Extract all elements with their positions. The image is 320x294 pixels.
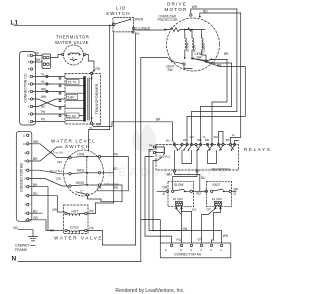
wire bundle corner 1 <box>212 60 227 103</box>
svg-text:1: 1 <box>220 248 222 252</box>
svg-text:BU: BU <box>41 105 46 109</box>
svg-text:3: 3 <box>28 105 30 109</box>
svg-text:9: 9 <box>28 60 30 64</box>
motor winding SLOW coil <box>185 36 187 51</box>
long vertical wire from L1 branch <box>109 26 111 130</box>
svg-text:WH: WH <box>41 88 47 92</box>
svg-text:PK: PK <box>41 110 46 114</box>
wire water valve PK top loop <box>87 203 96 214</box>
svg-text:DRIVE: DRIVE <box>167 2 187 7</box>
wire PK row7 <box>33 121 65 123</box>
svg-text:9: 9 <box>24 151 26 155</box>
label BU between relays <box>193 190 206 192</box>
svg-text:SWITCH: SWITCH <box>65 144 90 149</box>
svg-text:3I: 3I <box>163 192 166 196</box>
long vertical wire from lid switch <box>96 33 114 203</box>
svg-text:5: 5 <box>28 90 30 94</box>
svg-text:YL: YL <box>136 32 140 36</box>
svg-text:220: 220 <box>57 160 62 164</box>
svg-text:23.7V: 23.7V <box>68 81 78 85</box>
connector CC pin numbers <box>27 54 30 124</box>
svg-text:WH: WH <box>197 138 202 142</box>
svg-text:WATER LEVEL: WATER LEVEL <box>51 139 96 144</box>
transformer winding <box>83 78 86 121</box>
svg-text:PROTECTOR: PROTECTOR <box>158 18 179 22</box>
svg-text:GN: GN <box>190 135 194 139</box>
wire PK row6 <box>33 113 65 115</box>
svg-text:RD: RD <box>96 67 101 71</box>
thermistor element <box>71 60 78 62</box>
svg-text:BR: BR <box>205 138 209 142</box>
connector CC pins <box>30 54 32 122</box>
wire motor GY left with N return vertical <box>141 58 168 262</box>
connector AA body <box>160 243 231 258</box>
svg-text:3: 3 <box>200 248 202 252</box>
motor winding START coil <box>202 36 204 51</box>
svg-text:THERMISTOR: THERMISTOR <box>56 34 89 39</box>
svg-text:8: 8 <box>28 67 30 71</box>
connector BB body <box>16 131 32 221</box>
label 22.4V <box>67 113 80 118</box>
motor winding RUN coil <box>192 36 194 51</box>
svg-text:24 VDC: 24 VDC <box>173 197 184 201</box>
svg-text:6: 6 <box>28 82 30 86</box>
wire WH row5 crossover <box>33 99 65 107</box>
motor bottom rail junctions <box>184 57 186 59</box>
wire YL row2 <box>33 83 65 85</box>
svg-text:FRAME: FRAME <box>15 248 28 252</box>
svg-text:RUN: RUN <box>193 44 197 52</box>
wire bundle corner 4 <box>187 62 245 116</box>
svg-text:WH: WH <box>192 5 198 9</box>
wire YL row1 <box>33 76 65 78</box>
svg-text:CONNECTOR AA: CONNECTOR AA <box>174 253 202 257</box>
svg-text:SW: SW <box>197 55 202 59</box>
svg-text:OPEN: OPEN <box>134 18 144 22</box>
wire motor internal rails <box>185 52 206 60</box>
svg-text:2: 2 <box>210 248 212 252</box>
relay terminal labels <box>166 133 235 142</box>
svg-text:PK: PK <box>114 186 119 190</box>
wire lid switch output dashed <box>113 31 132 33</box>
svg-text:220: 220 <box>56 176 61 180</box>
svg-text:2: 2 <box>28 112 30 116</box>
svg-text:TRANSFORMER: TRANSFORMER <box>94 83 99 114</box>
wires left bundle to connector AA <box>149 150 182 244</box>
svg-text:OR: OR <box>52 208 57 212</box>
thermistor water valve dashed circle <box>64 45 84 65</box>
svg-text:WH: WH <box>214 135 219 139</box>
wires relay bottom down <box>175 172 206 191</box>
svg-text:SW: SW <box>168 68 173 72</box>
svg-text:7: 7 <box>24 168 26 172</box>
svg-text:5.8V: 5.8V <box>68 96 76 100</box>
wire WLS C down <box>87 196 101 202</box>
wire WH row3 <box>33 91 65 93</box>
svg-text:SWITCH: SWITCH <box>106 11 131 16</box>
svg-text:10: 10 <box>23 142 26 146</box>
svg-text:12: 12 <box>232 133 236 137</box>
transformer T1 dashed enclosure <box>65 74 101 125</box>
lid switch CLOSED contact <box>133 27 136 30</box>
svg-text:22.4V: 22.4V <box>67 114 77 118</box>
relay box top terminals <box>173 143 235 145</box>
motor overload protector element <box>166 28 184 32</box>
relay reversing loops <box>182 151 217 164</box>
overload protector secondary element <box>186 28 193 31</box>
svg-text:5: 5 <box>180 248 182 252</box>
svg-text:WH: WH <box>167 172 173 176</box>
svg-text:PK: PK <box>41 118 46 122</box>
svg-text:GY: GY <box>198 238 203 242</box>
svg-text:SLOW: SLOW <box>174 183 183 187</box>
svg-text:LID: LID <box>116 6 126 11</box>
svg-text:REVERSING: REVERSING <box>212 168 231 172</box>
wire bundle vertical RD <box>231 13 241 138</box>
terminal block 2x2 <box>42 54 51 69</box>
long vertical wire YL output down <box>135 33 137 245</box>
svg-text:BU: BU <box>201 176 206 180</box>
wire motor right exits <box>192 59 232 64</box>
svg-text:WATER VALVE: WATER VALVE <box>54 236 103 241</box>
svg-text:11: 11 <box>23 133 26 137</box>
relay box top wires <box>187 102 239 143</box>
svg-text:RD: RD <box>33 192 38 196</box>
svg-text:PK: PK <box>98 186 103 190</box>
svg-text:6: 6 <box>24 177 26 181</box>
svg-text:PK: PK <box>90 210 95 214</box>
wire N line <box>18 261 141 263</box>
relay K1 coil <box>153 146 155 148</box>
water level switch dashed circle <box>64 150 104 196</box>
svg-text:OR: OR <box>163 186 168 190</box>
relay FAST dashed enclosure <box>207 181 232 206</box>
svg-text:BR: BR <box>234 187 239 191</box>
svg-text:RD: RD <box>183 138 187 142</box>
svg-text:I2: I2 <box>234 192 237 196</box>
svg-text:BR: BR <box>224 52 229 56</box>
relay box dashed enclosure <box>156 145 239 171</box>
thermistor valve right terminal <box>83 53 85 55</box>
svg-text:LOW: LOW <box>77 153 84 157</box>
thermistor valve left terminal <box>62 53 64 55</box>
svg-text:BK: BK <box>226 138 230 142</box>
wire water valve PK bottom loop <box>87 231 103 246</box>
drive motor M1 dashed circle <box>167 18 220 71</box>
svg-text:BU: BU <box>166 139 170 143</box>
svg-text:1: 1 <box>28 120 30 124</box>
svg-text:6: 6 <box>165 248 167 252</box>
connector AA pins <box>170 244 222 246</box>
svg-text:PK: PK <box>149 143 153 147</box>
label 23.7V <box>67 80 80 85</box>
centrifugal switch upper contact <box>205 60 207 62</box>
transformer primary line <box>91 75 93 122</box>
svg-text:2: 2 <box>24 211 26 215</box>
wire L1 feed <box>14 24 114 26</box>
svg-text:FAST: FAST <box>213 183 221 187</box>
svg-text:YL: YL <box>89 126 93 130</box>
wire BK row <box>33 55 42 57</box>
connector BB pins <box>27 134 29 221</box>
svg-text:MOTOR: MOTOR <box>165 7 188 12</box>
svg-text:BU: BU <box>197 192 202 196</box>
svg-text:CONNECTOR CC: CONNECTOR CC <box>24 73 28 103</box>
svg-text:PU: PU <box>177 238 182 242</box>
wire block to valve <box>51 54 95 70</box>
wire transformer BR bottom <box>92 122 175 144</box>
watermark flame logo <box>108 123 229 179</box>
svg-text:4: 4 <box>24 194 26 198</box>
wire motor lower-left link <box>169 58 193 68</box>
svg-text:10: 10 <box>27 54 30 58</box>
motor top junction RD <box>199 16 201 18</box>
wires BB to WLS with crossovers <box>29 144 69 158</box>
svg-text:RELAYS: RELAYS <box>244 147 271 152</box>
connector AA pin numbers <box>165 248 222 252</box>
transformer tap terminals <box>59 77 61 116</box>
svg-text:BR: BR <box>97 123 102 127</box>
connector CC body <box>20 52 36 126</box>
thermistor valve coil M <box>70 53 79 55</box>
svg-text:WATER VALVE: WATER VALVE <box>55 40 89 45</box>
svg-text:PK: PK <box>90 227 95 231</box>
transformer secondary taps <box>66 78 85 120</box>
svg-text:5: 5 <box>24 185 26 189</box>
svg-text:RD: RD <box>203 9 208 13</box>
svg-text:MED: MED <box>77 169 85 173</box>
svg-text:GN: GN <box>183 227 188 231</box>
wire thermistor valve to transformer primary <box>92 71 94 74</box>
wire WLS top YL <box>89 130 110 151</box>
label 5.8V <box>67 94 78 99</box>
svg-text:GY: GY <box>192 208 197 212</box>
svg-text:GR: GR <box>33 216 38 220</box>
relay box bottom terminals <box>173 170 175 172</box>
wire WLS right loop upper <box>97 157 128 191</box>
svg-text:YL: YL <box>41 73 45 77</box>
svg-text:N: N <box>12 255 17 262</box>
centrifugal switch lower contact <box>183 63 185 65</box>
svg-text:CONNECTOR BB: CONNECTOR BB <box>20 162 24 191</box>
svg-text:GY: GY <box>207 208 212 212</box>
svg-text:WH: WH <box>41 95 47 99</box>
svg-text:3: 3 <box>24 203 26 207</box>
wire motor RD up right <box>200 13 241 17</box>
svg-text:Rendered by LeadVenture, Inc.: Rendered by LeadVenture, Inc. <box>115 288 184 294</box>
svg-text:WH: WH <box>33 140 39 144</box>
wire motor WH up <box>191 9 237 14</box>
svg-text:4: 4 <box>28 97 30 101</box>
wire BU row4 crossover <box>33 99 65 107</box>
svg-text:COLD: COLD <box>70 226 80 230</box>
wires BB lower pins <box>29 187 65 231</box>
svg-text:BR: BR <box>156 118 161 122</box>
relay drops to bottom terminals <box>175 151 198 170</box>
svg-text:HIGH: HIGH <box>76 181 85 185</box>
svg-text:GN: GN <box>13 226 18 230</box>
relay SLOW contact <box>166 190 168 192</box>
svg-text:RD: RD <box>113 167 118 171</box>
wire tap to AA corner <box>141 220 161 243</box>
relay FAST contact <box>205 190 207 192</box>
connector BB pin numbers <box>23 133 26 222</box>
wire WH row <box>33 61 42 63</box>
svg-text:8: 8 <box>24 159 26 163</box>
WLS dashed link <box>86 157 88 185</box>
relay contacts inside <box>175 146 235 150</box>
svg-text:WH: WH <box>223 234 229 238</box>
relay SLOW dashed enclosure <box>168 181 194 206</box>
svg-text:BU: BU <box>33 209 38 213</box>
svg-text:7: 7 <box>28 75 30 79</box>
wires CC to transformer <box>33 73 65 122</box>
wire YL from lid switch to motor <box>135 29 166 32</box>
wire bundle corner 3 <box>192 9 237 112</box>
wire WLS right loop RD <box>101 173 122 202</box>
svg-text:SLOW: SLOW <box>186 43 190 52</box>
motor top terminal WH <box>190 14 192 16</box>
wire bundle corner 2 <box>201 63 232 107</box>
svg-text:HOT: HOT <box>72 210 79 214</box>
wire overload to windings top rail <box>185 30 205 37</box>
lid switch blade to OPEN contact <box>115 20 130 24</box>
svg-text:C: C <box>72 56 75 60</box>
svg-text:4: 4 <box>190 248 192 252</box>
water valve dashed enclosure <box>64 205 89 234</box>
svg-text:PK: PK <box>114 152 119 156</box>
lid switch pole terminal <box>112 23 115 26</box>
ground symbol <box>29 237 38 241</box>
svg-text:YL: YL <box>41 80 45 84</box>
wire bottom bus <box>103 244 136 246</box>
transformer core lines <box>88 78 89 120</box>
wires relay coils to AA columns <box>176 209 181 231</box>
svg-text:START: START <box>202 42 206 52</box>
svg-text:24 VDC: 24 VDC <box>212 197 223 201</box>
lid switch SW1 dashed enclosure <box>113 18 134 32</box>
svg-text:WH: WH <box>35 58 41 62</box>
svg-text:BR: BR <box>33 157 38 161</box>
